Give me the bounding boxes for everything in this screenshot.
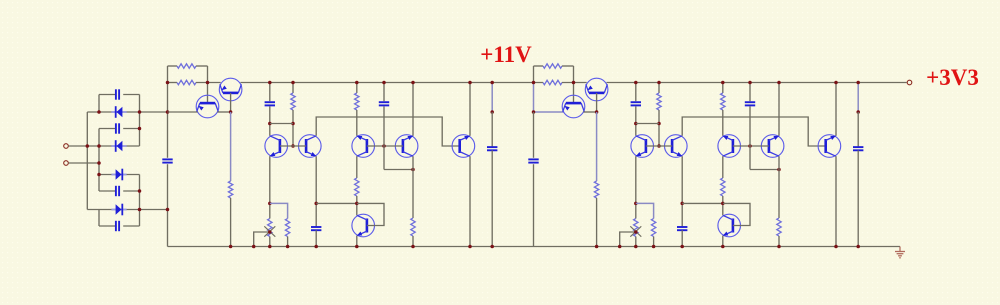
svg-text:+11V: +11V <box>480 42 532 67</box>
svg-text:+3V3: +3V3 <box>926 65 979 90</box>
